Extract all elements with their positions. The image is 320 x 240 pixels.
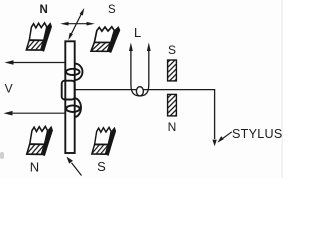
cantilever bar [65,41,74,153]
svg-text:N: N [30,159,39,174]
wire arrow upper-left [5,60,66,65]
wire arrow lower-left [4,111,67,116]
svg-text:N: N [168,120,177,134]
svg-text:S: S [97,159,106,174]
coil turn upper [66,64,83,80]
magnet N bottom-left [27,126,53,155]
svg-text:STYLUS: STYLUS [232,127,283,141]
svg-text:L: L [134,25,141,40]
svg-text:S: S [108,4,116,16]
scan artifact left edge [0,152,4,159]
inductance lead right [140,43,151,96]
pole piece N right [168,94,177,116]
scan artifact right edge [282,0,283,178]
pointer to cantilever tip [67,157,82,176]
pointer to stylus arrow [217,132,231,143]
wire to stylus [75,90,215,139]
svg-text:S: S [168,43,176,57]
inductance lead left [129,43,140,96]
coil former bracket [62,81,75,100]
svg-text:N: N [39,4,47,16]
stylus arrowhead down [212,140,216,147]
magnet S top-right [91,27,120,53]
cross arrow diagonal [68,8,84,40]
coil turn lower [66,98,81,117]
cross arrow horizontal [60,22,95,26]
magnet S bottom-center [92,127,116,155]
svg-text:V: V [5,81,13,95]
magnet N top-left [26,23,51,52]
inductance loop [136,87,143,96]
pole piece S right [168,60,177,81]
